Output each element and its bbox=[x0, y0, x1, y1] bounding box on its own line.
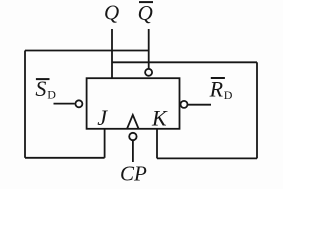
svg-text:J: J bbox=[97, 105, 108, 130]
svg-text:R: R bbox=[209, 76, 224, 101]
svg-text:K: K bbox=[151, 106, 168, 131]
svg-text:D: D bbox=[224, 88, 233, 102]
svg-text:S: S bbox=[35, 76, 46, 101]
svg-text:CP: CP bbox=[120, 162, 147, 186]
svg-text:Q: Q bbox=[138, 1, 153, 25]
svg-text:Q: Q bbox=[104, 1, 119, 25]
svg-text:D: D bbox=[47, 88, 56, 102]
